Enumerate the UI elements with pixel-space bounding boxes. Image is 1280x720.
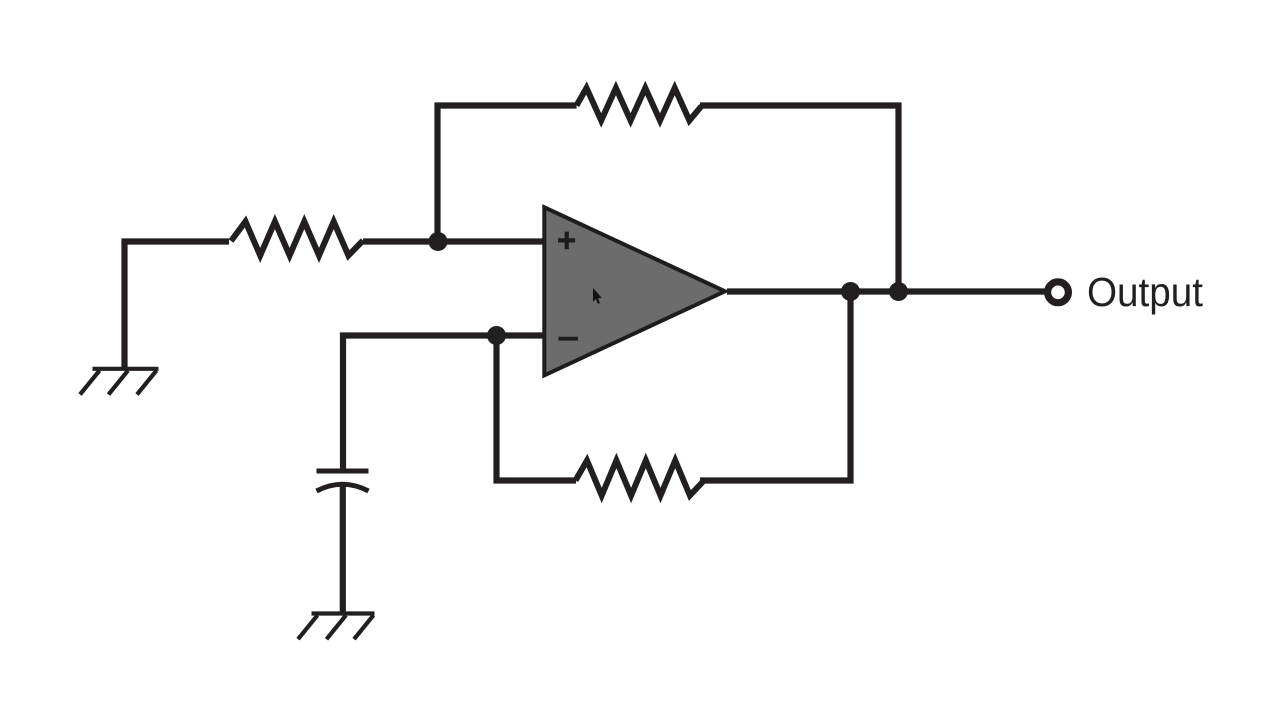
node C junction dot (- input node) (487, 326, 506, 345)
output terminal (open circle) (1048, 282, 1069, 303)
op-amp U1 (triangle body) (544, 207, 725, 375)
mouse cursor inside op-amp (593, 288, 602, 304)
resistor R2 (left input resistor) (231, 222, 363, 256)
resistor R1 (top feedback resistor) (577, 88, 702, 121)
wire from node C down to bottom feedback resistor R3 (497, 336, 577, 481)
capacitor C1 top plate (317, 469, 369, 474)
wire from R3 right and up to output node B (700, 292, 851, 481)
wire from GND1 up and right to resistor R2 (125, 242, 230, 369)
node A junction dot (+ input node) (429, 232, 448, 251)
op-amp U1 + input label (558, 232, 575, 250)
ground GND2 (capacitor ground) (298, 614, 375, 640)
node B junction dot (output/feedback) (841, 282, 860, 301)
ground GND1 (left input ground) (80, 369, 159, 395)
wire from R2 to op-amp + input (363, 238, 546, 244)
wire from R1 right and down to output node B (700, 106, 899, 292)
op-amp U1 - input label (558, 337, 578, 341)
wire: top feedback loop from node A up over resistor R1 to output (438, 106, 577, 242)
wire: op-amp output to terminal (727, 288, 1045, 294)
capacitor C1 bottom curved plate (317, 484, 369, 491)
wire from C1 down to ground GND2 (340, 487, 346, 614)
svg-text:Output: Output (1087, 269, 1204, 315)
wire: - input from op-amp left to corner (343, 336, 546, 470)
resistor R3 (bottom feedback resistor) (576, 461, 705, 496)
node D junction dot (top loop tap) (889, 282, 908, 301)
